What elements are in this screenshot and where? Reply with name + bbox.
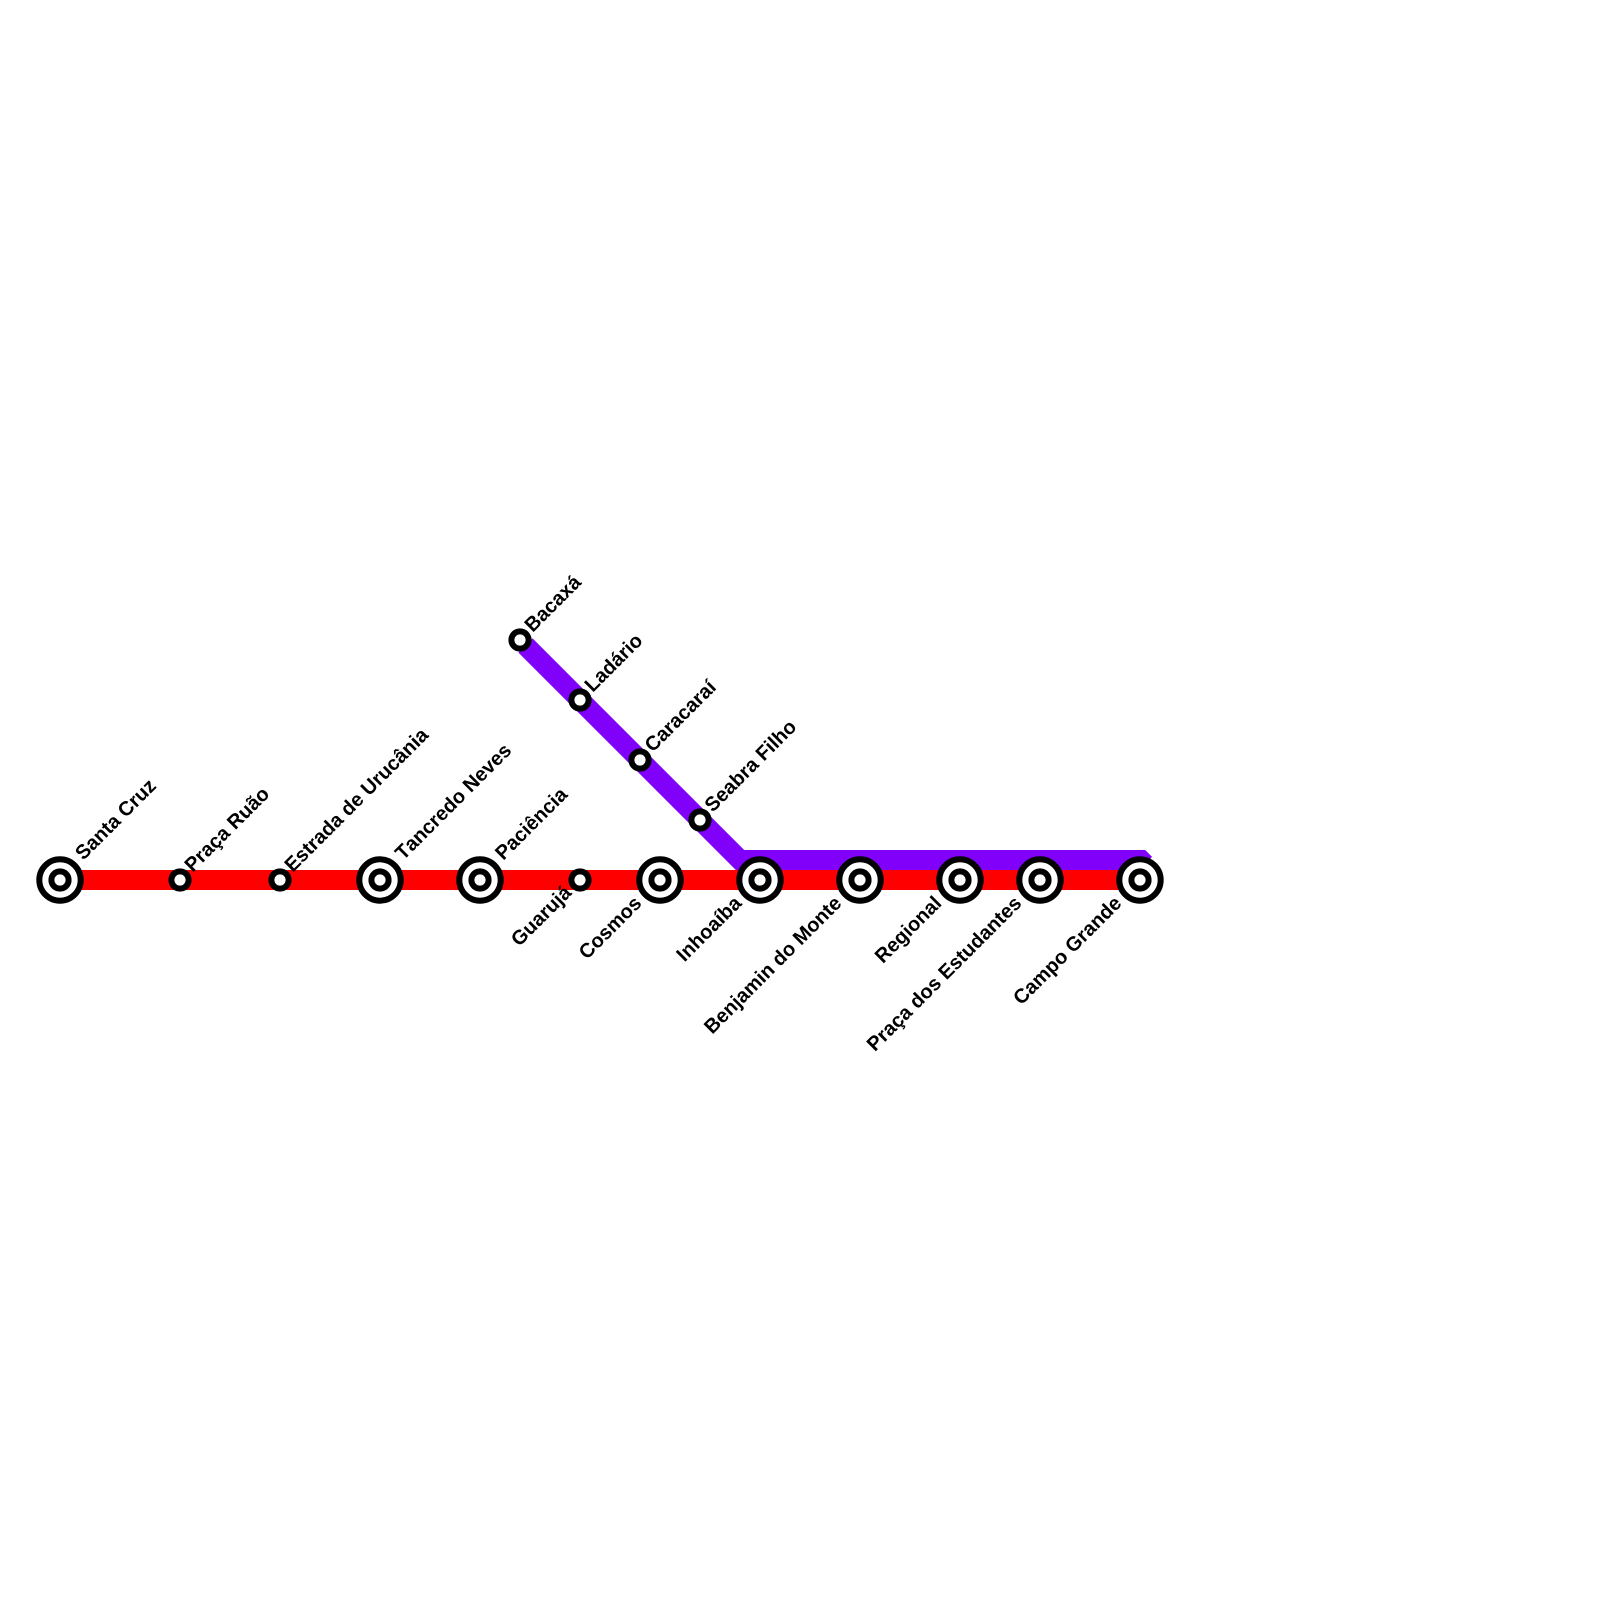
label Inhoaíba <box>675 894 743 962</box>
label Guarujá <box>509 883 575 949</box>
label Praça dos Estudantes <box>866 895 1025 1054</box>
label Caracaraí <box>643 678 718 753</box>
label Praça Ruão <box>183 785 273 875</box>
label Benjamin do Monte <box>703 895 845 1037</box>
station Cosmos <box>639 859 680 900</box>
label Estrada de Urucânia <box>283 726 430 873</box>
label Paciência <box>494 785 569 860</box>
station Praça dos Estudantes <box>1019 859 1060 900</box>
label Santa Cruz <box>74 778 157 861</box>
label Seabra Filho <box>703 718 797 812</box>
station Ladário <box>571 691 588 708</box>
station Caracaraí <box>631 751 648 768</box>
station Paciência <box>459 859 500 900</box>
station Tancredo Neves <box>359 859 400 900</box>
station Estrada de Urucânia <box>271 871 288 888</box>
station Santa Cruz <box>39 859 80 900</box>
label Tancredo Neves <box>393 742 512 861</box>
station Seabra Filho <box>691 811 708 828</box>
label Ladário <box>583 632 643 692</box>
label Campo Grande <box>1012 895 1126 1009</box>
station Regional <box>939 859 980 900</box>
label Bacaxá <box>523 573 582 632</box>
station Benjamin do Monte <box>839 859 880 900</box>
label Regional <box>874 895 945 966</box>
red line Santa Cruz - Campo Grande <box>60 870 1140 890</box>
label Cosmos <box>578 895 643 960</box>
station Guarujá <box>571 871 588 888</box>
station Inhoaíba <box>739 859 780 900</box>
purple line Bacaxá branch <box>526 646 1146 865</box>
station Campo Grande <box>1119 859 1160 900</box>
station Bacaxá <box>511 631 528 648</box>
station Praça Ruão <box>171 871 188 888</box>
